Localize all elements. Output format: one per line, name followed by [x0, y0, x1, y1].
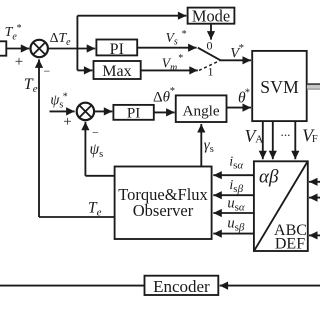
svg-text:DEF: DEF — [275, 236, 305, 253]
svg-text:*: * — [239, 42, 245, 54]
wire J2 to PI2 — [94, 110, 112, 112]
svg-text:ΔTe: ΔTe — [50, 30, 72, 48]
svg-text:PI: PI — [110, 41, 124, 58]
svg-text:Te: Te — [24, 76, 38, 95]
wire gamma_s from observer up into Angle — [200, 124, 202, 166]
svg-text:isα: isα — [229, 154, 243, 171]
block PI1 (torque PI controller) — [96, 40, 137, 56]
wire Mode to switch — [210, 24, 212, 40]
svg-text:Observer: Observer — [133, 201, 194, 220]
summing junction J2 (flux error) — [77, 103, 94, 120]
svg-text:VA: VA — [245, 126, 264, 146]
block Max — [94, 61, 141, 79]
wire branch to Max block — [77, 69, 92, 71]
block Mode — [188, 8, 235, 24]
wire Te feedback vertical into J1 minus input — [38, 59, 40, 217]
wire i_s_beta from transform to observer — [213, 194, 254, 196]
summing junction J1 (torque error) — [31, 40, 48, 57]
svg-text:*: * — [170, 86, 175, 97]
block Torque and Flux Observer — [115, 167, 212, 240]
transform block diagonal — [255, 162, 308, 250]
wire u_s_beta from transform to observer — [213, 233, 254, 235]
svg-text:*: * — [63, 91, 68, 102]
wire dTheta* from PI2 to Angle — [154, 111, 175, 113]
wire phase voltage input into transform right side — [309, 234, 320, 236]
svg-text:PI: PI — [127, 105, 140, 121]
svg-text:*: * — [182, 29, 187, 40]
wire SVM output VA down to transform — [262, 121, 264, 159]
svg-text:+: + — [63, 114, 71, 130]
svg-text:−: − — [92, 125, 99, 139]
wire SVM output (dots) down to transform — [272, 121, 274, 159]
svg-text:0: 0 — [207, 38, 213, 52]
svg-text:usβ: usβ — [227, 216, 245, 234]
svg-text:Angle: Angle — [183, 102, 220, 119]
svg-text:Mode: Mode — [192, 6, 230, 25]
svg-text:αβ: αβ — [259, 166, 279, 187]
bus: gray line from SVM right edge — [307, 83, 320, 85]
wire dTe from J1 to PI1 — [48, 48, 95, 50]
wire Max output Vm* to switch contact 1 — [140, 69, 197, 71]
block: speed controller (cut off at left edge) — [0, 41, 6, 55]
switch lever (position 0, solid) — [198, 48, 221, 61]
svg-text:Vs: Vs — [166, 30, 178, 48]
block PI2 (flux PI controller) — [113, 105, 153, 120]
wire psi_s feedback vertical into J2 minus input — [84, 122, 86, 176]
block abc to alpha-beta transform — [254, 161, 308, 251]
wire Te feedback horizontal from observer — [39, 216, 115, 218]
node branch vertical to Mode line and Max line — [76, 16, 78, 71]
wire psi_s feedback horizontal from observer — [85, 175, 114, 177]
wire i_s_alpha from transform to observer — [213, 174, 254, 176]
block Encoder — [145, 276, 219, 295]
svg-text:1: 1 — [208, 65, 214, 79]
wire from right edge into Encoder — [220, 285, 320, 287]
wire branch to Mode block — [77, 15, 186, 17]
svg-text:ψs: ψs — [90, 141, 104, 160]
svg-text:*: * — [178, 53, 183, 64]
svg-text:SVM: SVM — [260, 77, 299, 97]
svg-text:γs: γs — [204, 137, 214, 155]
svg-text:usα: usα — [227, 196, 245, 214]
wire V* from switch to SVM — [221, 59, 252, 61]
wire Te* reference into summing junction J1 — [6, 48, 29, 50]
svg-text:VF: VF — [302, 126, 318, 146]
wire phase current input A into transform right side — [309, 181, 320, 183]
wire flux reference psi_s* into J2 — [50, 110, 75, 112]
svg-text:−: − — [44, 64, 51, 78]
svg-text:Δθ: Δθ — [153, 90, 171, 106]
svg-text:ψs: ψs — [50, 93, 63, 111]
svg-text:Te: Te — [88, 199, 102, 218]
svg-text:*: * — [17, 23, 22, 34]
wire theta* from Angle to SVM — [227, 107, 251, 109]
svg-text:isβ: isβ — [229, 178, 243, 195]
svg-text:Max: Max — [102, 63, 131, 80]
block SVM — [252, 51, 307, 121]
wire PI1 output Vs* to switch contact 0 — [137, 47, 196, 49]
block Angle — [176, 95, 227, 122]
svg-text:+: + — [15, 54, 23, 70]
svg-text:···: ··· — [280, 127, 290, 142]
switch alternative (position 1, dashed) — [199, 60, 221, 70]
svg-text:*: * — [245, 87, 250, 98]
wire u_s_alpha from transform to observer — [213, 212, 254, 214]
svg-text:Encoder: Encoder — [153, 277, 210, 296]
wire Encoder output to left edge — [0, 285, 144, 287]
wire phase current input B into transform right side — [309, 197, 320, 199]
wire SVM output VF down to transform — [294, 121, 296, 159]
